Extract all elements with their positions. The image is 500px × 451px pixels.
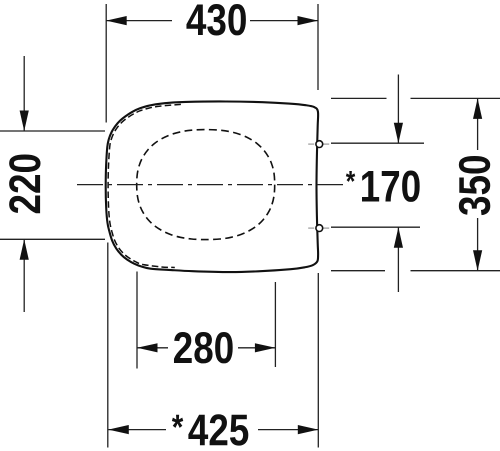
dimension 280: dimension line [137,347,168,349]
dimension 430: dimension line [106,20,172,22]
dimension 280: label [174,332,233,363]
dimension *425: arrowheads [108,425,129,434]
bowl opening dashed oval [137,130,275,240]
dimension 430: arrowheads [106,16,127,25]
dimension *170: dimension line tails [397,75,399,144]
hinge pin top [316,141,323,148]
dimension 220: dimension line tails [23,56,25,131]
dimension 220: extension lines [0,56,105,312]
dimension 430: extension lines [106,4,318,123]
dimension *170: extension lines [331,75,424,293]
seat lid outer outline [106,101,318,272]
dimension *170: arrowheads [394,123,403,144]
seat ring dashed line (under lid, left side) [108,104,181,267]
hinge pin bottom [316,225,323,232]
hinge axis gray dashes top [308,144,329,228]
dimension 430: label [186,4,245,35]
dimension 280: extension lines [137,272,275,369]
horizontal centerline (dash-dot) [77,184,345,186]
dimension *425: dimension line [108,429,166,431]
dimension 220: arrowheads [20,111,29,132]
dimension 350: dimension line [477,98,479,150]
dimension *170: label [346,171,420,202]
dimension 350: arrowheads [473,98,482,119]
dimension 350: extension lines (with gaps at *170 line) [331,98,500,270]
dimension 220: label [9,155,40,214]
dimension 280: arrowheads [137,343,158,352]
dimension 350: label [459,156,490,215]
dimension *425: extension lines [108,243,318,448]
dimension *425: label [172,414,248,445]
